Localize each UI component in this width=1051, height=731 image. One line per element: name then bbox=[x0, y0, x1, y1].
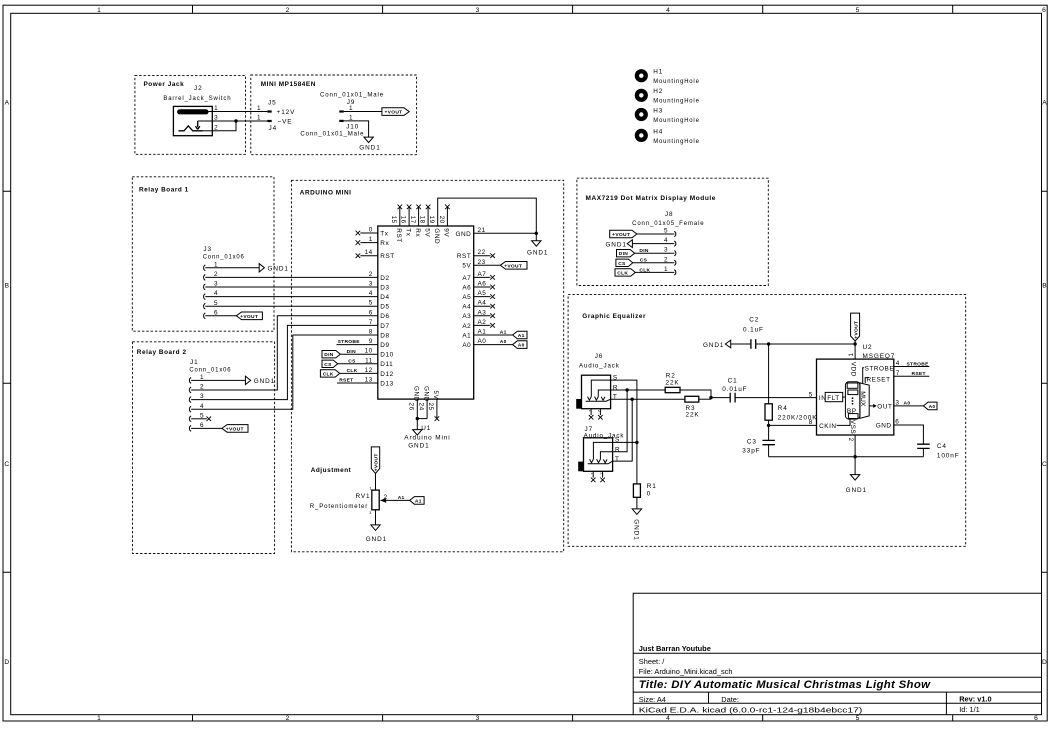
svg-text:D13: D13 bbox=[380, 380, 393, 387]
connector J1 bbox=[189, 359, 231, 373]
U1 top pin names bbox=[395, 228, 450, 244]
svg-text:7: 7 bbox=[369, 319, 373, 326]
svg-text:H4: H4 bbox=[653, 128, 663, 135]
svg-text:1: 1 bbox=[214, 105, 218, 112]
wire J6.S down to J7.S bbox=[611, 380, 637, 442]
wire C1 to U2 pin 5 bbox=[735, 397, 816, 399]
svg-text:2: 2 bbox=[664, 256, 668, 263]
+VOUT flag at J1.6 bbox=[222, 425, 248, 433]
svg-text:1: 1 bbox=[664, 266, 668, 273]
svg-text:A1: A1 bbox=[478, 329, 487, 336]
svg-text:2: 2 bbox=[369, 271, 373, 278]
Relay Board 1 section box bbox=[132, 177, 274, 331]
svg-text:+VOUT: +VOUT bbox=[853, 321, 859, 339]
svg-text:CKIN: CKIN bbox=[819, 423, 836, 430]
svg-text:CS: CS bbox=[640, 258, 648, 264]
svg-text:H3: H3 bbox=[653, 107, 663, 114]
svg-text:Graphic Equalizer: Graphic Equalizer bbox=[582, 313, 646, 320]
net label STROBE on D9 bbox=[337, 339, 378, 345]
svg-text:GND1: GND1 bbox=[366, 536, 387, 543]
svg-text:D: D bbox=[4, 659, 9, 666]
svg-text:1: 1 bbox=[97, 7, 101, 14]
GND1 flag at C2 bbox=[703, 340, 751, 349]
svg-text:20: 20 bbox=[438, 216, 445, 224]
wire junction to C1 bbox=[711, 397, 730, 399]
svg-text:26: 26 bbox=[408, 403, 415, 411]
svg-text:2: 2 bbox=[847, 438, 854, 442]
svg-text:D7: D7 bbox=[380, 323, 389, 330]
svg-text:8: 8 bbox=[809, 419, 813, 426]
svg-text:21: 21 bbox=[478, 227, 486, 234]
U1 pin 22 RST no-connect bbox=[457, 249, 495, 260]
U1 pin 14 RST bbox=[356, 249, 395, 260]
ARDUINO MINI section box bbox=[291, 180, 563, 552]
wire J6.T right and down to J7.T bbox=[611, 399, 685, 461]
svg-text:Tx: Tx bbox=[380, 230, 388, 237]
net label RSET on D13 bbox=[337, 378, 378, 384]
wire +12V J2.1 to J5 bbox=[218, 111, 267, 113]
capacitor C1 bbox=[722, 377, 747, 402]
svg-text:GND1: GND1 bbox=[605, 241, 626, 248]
svg-text:2: 2 bbox=[286, 7, 290, 14]
U2 pin 4 STROBE bbox=[894, 360, 930, 367]
wire J6.R right and down to J7.R bbox=[611, 390, 666, 452]
U1 bottom pin 26 GND bbox=[408, 386, 420, 419]
svg-text:16: 16 bbox=[400, 216, 407, 224]
svg-text:J8: J8 bbox=[665, 211, 674, 218]
ground GND1 below R1 bbox=[632, 497, 641, 540]
svg-text:GND1: GND1 bbox=[254, 378, 275, 385]
svg-text:1: 1 bbox=[848, 352, 855, 356]
svg-text:D5: D5 bbox=[380, 304, 389, 311]
svg-text:GND1: GND1 bbox=[527, 250, 548, 257]
svg-text:1: 1 bbox=[369, 236, 373, 243]
svg-text:18: 18 bbox=[419, 216, 426, 224]
svg-text:GND1: GND1 bbox=[359, 145, 380, 152]
svg-text:A2: A2 bbox=[478, 319, 487, 326]
svg-text:+VOUT: +VOUT bbox=[385, 110, 403, 116]
svg-text:A: A bbox=[5, 100, 10, 107]
svg-text:Audio_Jack: Audio_Jack bbox=[579, 363, 620, 370]
svg-text:4: 4 bbox=[666, 7, 670, 14]
mounting hole H2 bbox=[635, 88, 700, 105]
svg-text:Relay Board 1: Relay Board 1 bbox=[139, 187, 189, 194]
svg-text:C: C bbox=[1042, 461, 1047, 468]
svg-text:RST: RST bbox=[380, 253, 394, 260]
svg-text:D11: D11 bbox=[380, 361, 393, 368]
svg-text:GND1: GND1 bbox=[632, 519, 639, 540]
+VOUT flag vertical at RV1 bbox=[371, 447, 379, 490]
svg-text:STROBE: STROBE bbox=[907, 362, 930, 368]
svg-text:4: 4 bbox=[896, 360, 900, 367]
svg-text:4: 4 bbox=[369, 290, 373, 297]
svg-text:Size: A4: Size: A4 bbox=[639, 695, 666, 704]
svg-text:KiCad E.D.A. kicad (6.0.0-rc1: KiCad E.D.A. kicad (6.0.0-rc1-124-g18b4e… bbox=[639, 706, 863, 715]
svg-text:A0: A0 bbox=[462, 342, 471, 349]
mounting hole H3 bbox=[635, 107, 700, 124]
resistor R2 bbox=[665, 372, 680, 392]
svg-text:RESET: RESET bbox=[867, 376, 891, 383]
svg-text:CS: CS bbox=[324, 362, 332, 368]
J3 pin 5 wire to D5 bbox=[204, 300, 378, 309]
pin 1 of J2 bbox=[209, 105, 219, 112]
svg-text:H2: H2 bbox=[653, 88, 663, 95]
svg-text:H1: H1 bbox=[653, 69, 663, 76]
svg-text:D3: D3 bbox=[380, 284, 389, 291]
svg-text:U2: U2 bbox=[863, 344, 873, 351]
wire pin24 to pin26 bbox=[417, 418, 427, 420]
junction bbox=[234, 119, 237, 122]
wire C2 to VDD bbox=[756, 343, 855, 345]
svg-text:OUT: OUT bbox=[877, 403, 892, 410]
svg-text:5V: 5V bbox=[423, 228, 430, 237]
svg-text:1: 1 bbox=[588, 410, 592, 412]
svg-text:DIN: DIN bbox=[639, 248, 648, 254]
svg-text:J3: J3 bbox=[203, 246, 212, 253]
U2 internals: STROBE/RESET bbox=[863, 366, 894, 384]
svg-text:1: 1 bbox=[257, 105, 261, 112]
+VOUT flag at J9 bbox=[382, 108, 409, 116]
svg-text:C4: C4 bbox=[937, 443, 947, 450]
U2 pin 7 RESET bbox=[894, 370, 930, 377]
svg-text:3: 3 bbox=[895, 400, 899, 407]
U2 pin 2 VSS down bbox=[847, 435, 855, 457]
svg-text:14: 14 bbox=[365, 249, 373, 256]
svg-text:9V: 9V bbox=[443, 228, 450, 237]
svg-text:23: 23 bbox=[478, 259, 486, 266]
svg-text:5: 5 bbox=[664, 228, 668, 235]
svg-text:5: 5 bbox=[369, 300, 373, 307]
svg-text:RST: RST bbox=[395, 228, 402, 242]
svg-text:CLK: CLK bbox=[347, 368, 358, 374]
svg-text:A5: A5 bbox=[478, 290, 487, 297]
svg-text:A1: A1 bbox=[500, 330, 507, 336]
svg-text:A1: A1 bbox=[518, 333, 525, 339]
J8 pin 5 with +VOUT flag bbox=[610, 228, 676, 239]
J3 pin 4 wire to D4 bbox=[204, 290, 378, 299]
svg-text:Just Barran Youtube: Just Barran Youtube bbox=[639, 644, 711, 653]
svg-text:A7: A7 bbox=[462, 275, 471, 282]
svg-text:3: 3 bbox=[369, 511, 371, 515]
svg-text:Date:: Date: bbox=[721, 695, 739, 704]
svg-text:D10: D10 bbox=[380, 352, 393, 359]
+VOUT flag vertical at U2 VDD bbox=[851, 313, 860, 359]
svg-text:1: 1 bbox=[257, 115, 261, 122]
svg-text:T: T bbox=[615, 456, 619, 463]
svg-text:19: 19 bbox=[428, 216, 435, 224]
svg-text:File: Arduino_Mini.kicad_sch: File: Arduino_Mini.kicad_sch bbox=[639, 667, 733, 676]
svg-text:4: 4 bbox=[664, 237, 668, 244]
svg-text:A0: A0 bbox=[904, 401, 911, 407]
svg-text:MountingHole: MountingHole bbox=[653, 98, 700, 105]
svg-text:A6: A6 bbox=[462, 284, 471, 291]
capacitor C3 bbox=[742, 425, 775, 456]
svg-text:A0: A0 bbox=[929, 404, 936, 410]
svg-text:5: 5 bbox=[856, 715, 860, 722]
U2 internals: OUT arrow bbox=[869, 403, 892, 410]
svg-text:A4: A4 bbox=[462, 304, 471, 311]
svg-text:GND1: GND1 bbox=[408, 443, 429, 450]
Relay Board 2 section box bbox=[133, 342, 275, 554]
U2 internals: IN FLT block bbox=[819, 392, 846, 402]
pin 3 of J2 bbox=[198, 114, 219, 121]
ground GND1 below RV1 bbox=[366, 510, 387, 543]
svg-text:D9: D9 bbox=[380, 342, 389, 349]
mounting hole H4 bbox=[635, 128, 700, 145]
svg-text:A3: A3 bbox=[462, 313, 471, 320]
U1 pin 21 GND right bbox=[455, 227, 536, 238]
svg-text:A0: A0 bbox=[500, 339, 507, 345]
svg-text:+VOUT: +VOUT bbox=[240, 314, 258, 320]
IC U1 Arduino Mini body bbox=[378, 226, 474, 399]
U2 internals: CKIN, VSS, GND bbox=[819, 419, 892, 434]
svg-text:R2: R2 bbox=[666, 372, 676, 379]
svg-text:1: 1 bbox=[97, 715, 101, 722]
svg-text:22K: 22K bbox=[666, 380, 680, 387]
svg-text:C2: C2 bbox=[749, 316, 759, 323]
wire RV1 wiper to A1 flag bbox=[387, 499, 410, 501]
svg-text:ARDUINO MINI: ARDUINO MINI bbox=[300, 189, 352, 196]
wire J7.S to R1 bbox=[613, 442, 637, 484]
svg-text:0.01uF: 0.01uF bbox=[722, 386, 747, 393]
svg-text:R4: R4 bbox=[778, 405, 788, 412]
ground GND1 at J10 bbox=[359, 137, 380, 152]
J8 pin 1 with CLK flag bbox=[615, 266, 676, 277]
U1 pin 1 Rx bbox=[356, 236, 390, 247]
svg-text:C3: C3 bbox=[747, 438, 757, 445]
ground GND1 at pin 21 bbox=[527, 233, 548, 256]
connector J3 bbox=[203, 246, 245, 260]
svg-text:J2: J2 bbox=[194, 85, 203, 92]
capacitor C4 bbox=[917, 443, 959, 459]
svg-text:CLK: CLK bbox=[639, 267, 650, 273]
svg-text:Conn_01x01_Male: Conn_01x01_Male bbox=[300, 131, 364, 138]
svg-text:17: 17 bbox=[409, 216, 416, 224]
U2 internals: MUX bbox=[859, 383, 869, 418]
svg-text:C: C bbox=[4, 461, 9, 468]
U1 pins A7..A2 no-connect bbox=[462, 271, 495, 330]
+VOUT flag at J3.6 bbox=[236, 312, 262, 320]
J3 pin 3 wire to D3 bbox=[204, 281, 378, 290]
svg-text:RV1: RV1 bbox=[356, 493, 371, 500]
J8 pin 2 with CS flag bbox=[616, 256, 676, 267]
connector J9 bbox=[320, 91, 384, 112]
svg-text:U1: U1 bbox=[421, 425, 431, 432]
IC U2 MSGEQ7 bbox=[817, 344, 896, 435]
U1 pin A0 with flag bbox=[462, 338, 527, 349]
U1 pin A1 with flag bbox=[462, 329, 527, 340]
svg-text:J1: J1 bbox=[190, 359, 199, 366]
svg-text:A1: A1 bbox=[462, 332, 471, 339]
svg-text:+VOUT: +VOUT bbox=[504, 263, 522, 269]
svg-text:Conn_01x05_Female: Conn_01x05_Female bbox=[632, 220, 704, 227]
svg-text:Sheet: /: Sheet: / bbox=[639, 657, 665, 666]
svg-text:GND1: GND1 bbox=[268, 266, 289, 273]
J1 pin 1 bbox=[189, 374, 245, 383]
svg-text:0: 0 bbox=[369, 227, 373, 234]
svg-text:3: 3 bbox=[476, 7, 480, 14]
svg-text:CLK: CLK bbox=[323, 371, 334, 377]
svg-text:Arduino Mini: Arduino Mini bbox=[404, 435, 450, 442]
svg-text:DIN: DIN bbox=[619, 251, 628, 257]
svg-text:Conn_01x06: Conn_01x06 bbox=[189, 366, 231, 373]
svg-text:12: 12 bbox=[365, 367, 373, 374]
svg-text:MAX7219 Dot Matrix Display Mod: MAX7219 Dot Matrix Display Module bbox=[586, 195, 716, 202]
svg-text:13: 13 bbox=[365, 377, 373, 384]
GND1 flag at J1.1 bbox=[245, 376, 275, 385]
Power Jack section box bbox=[135, 75, 246, 154]
svg-text:Tx: Tx bbox=[404, 228, 411, 236]
svg-text:6: 6 bbox=[1034, 715, 1038, 722]
svg-text:VSS: VSS bbox=[849, 420, 856, 434]
audio jack J6 bbox=[576, 353, 620, 420]
svg-text:22K: 22K bbox=[686, 412, 700, 419]
svg-text:24: 24 bbox=[417, 403, 424, 411]
svg-text:J5: J5 bbox=[268, 100, 277, 107]
J1 pin 3 wire to D7 bbox=[189, 325, 377, 402]
svg-text:B: B bbox=[1042, 283, 1047, 290]
connector J2 bbox=[163, 85, 231, 136]
svg-text:GND: GND bbox=[876, 423, 892, 430]
svg-text:GND1: GND1 bbox=[703, 342, 724, 349]
svg-text:MINI MP1584EN: MINI MP1584EN bbox=[261, 81, 316, 88]
svg-text:A1: A1 bbox=[415, 498, 422, 504]
MAX7219 section box bbox=[577, 178, 768, 285]
wire J2.2 up to J2.3 net bbox=[218, 121, 236, 131]
svg-text:R: R bbox=[615, 447, 620, 454]
svg-text:STROBE: STROBE bbox=[865, 366, 895, 373]
J3 pin 1 bbox=[204, 261, 260, 270]
svg-text:DIN: DIN bbox=[324, 352, 333, 358]
svg-text:MountingHole: MountingHole bbox=[653, 78, 700, 85]
wire -VE J2.3 to J4 bbox=[218, 120, 267, 122]
svg-text:VDD: VDD bbox=[850, 362, 857, 377]
svg-text:A0: A0 bbox=[478, 338, 487, 345]
A1 flag at RV1 bbox=[410, 497, 424, 505]
wire pin19 GND loop to pin 21 bbox=[438, 198, 537, 233]
resistor R3 bbox=[685, 396, 700, 418]
svg-text:J4: J4 bbox=[269, 125, 278, 132]
svg-text:R1: R1 bbox=[647, 483, 657, 490]
svg-text:GND: GND bbox=[413, 386, 420, 402]
svg-text:B: B bbox=[5, 283, 10, 290]
svg-text:25: 25 bbox=[427, 403, 434, 411]
svg-text:RSET: RSET bbox=[339, 378, 353, 384]
svg-text:33pF: 33pF bbox=[742, 448, 760, 455]
svg-text:CS: CS bbox=[618, 261, 626, 267]
svg-text:2: 2 bbox=[286, 715, 290, 722]
connector J4 bbox=[257, 115, 293, 132]
svg-text:1: 1 bbox=[590, 472, 594, 474]
svg-text:1: 1 bbox=[369, 486, 371, 490]
svg-text:10: 10 bbox=[365, 348, 373, 355]
wire R2 to junction bbox=[680, 390, 711, 399]
ground GND1 at U1 bbox=[408, 419, 429, 450]
svg-text:2: 2 bbox=[597, 410, 601, 412]
svg-text:Rev: v1.0: Rev: v1.0 bbox=[959, 694, 991, 703]
svg-text:+VOUT: +VOUT bbox=[374, 453, 380, 471]
svg-text:−VE: −VE bbox=[278, 118, 293, 125]
J3 pin 2 wire to D2 bbox=[204, 271, 378, 280]
resistor R4 bbox=[765, 404, 817, 422]
U1 top pins 15-18,20 no-connect bbox=[398, 205, 450, 226]
svg-text:GND: GND bbox=[422, 386, 429, 402]
svg-text:R_Potentiometer: R_Potentiometer bbox=[310, 503, 368, 510]
svg-text:A4: A4 bbox=[478, 300, 487, 307]
J1 pin 2 wire to D6 bbox=[189, 316, 377, 393]
U1 pins D2..D13 numbers and names bbox=[365, 271, 394, 388]
audio jack J7 bbox=[578, 426, 624, 482]
svg-text:3: 3 bbox=[664, 247, 668, 254]
svg-text:A5: A5 bbox=[462, 294, 471, 301]
svg-text:0: 0 bbox=[647, 491, 651, 498]
global label CLK on D12 bbox=[320, 368, 377, 377]
svg-text:11: 11 bbox=[365, 357, 373, 364]
U2 pin 3 OUT with A0 flag bbox=[894, 400, 937, 410]
svg-text:Conn_01x01_Male: Conn_01x01_Male bbox=[320, 91, 384, 98]
junction at GND loop bbox=[535, 232, 538, 235]
U1 bottom pin 25 5V no-connect bbox=[427, 391, 439, 421]
svg-text:8: 8 bbox=[369, 329, 373, 336]
svg-text:D8: D8 bbox=[380, 332, 389, 339]
svg-text:RSET: RSET bbox=[912, 371, 926, 377]
capacitor C2 bbox=[743, 316, 764, 349]
svg-text:5: 5 bbox=[856, 7, 860, 14]
U1 pin 23 5V with +VOUT flag bbox=[462, 259, 527, 270]
svg-text:Power Jack: Power Jack bbox=[144, 81, 185, 88]
svg-text:D4: D4 bbox=[380, 294, 389, 301]
svg-text:FLT: FLT bbox=[827, 395, 840, 402]
svg-text:C1: C1 bbox=[728, 377, 738, 384]
svg-text:+VOUT: +VOUT bbox=[612, 232, 630, 238]
svg-text:3: 3 bbox=[476, 715, 480, 722]
svg-text:4: 4 bbox=[666, 715, 670, 722]
svg-text:3: 3 bbox=[369, 281, 373, 288]
U1 bottom pin 24 GND bbox=[417, 386, 429, 419]
svg-text:6: 6 bbox=[369, 309, 373, 316]
svg-text:+VOUT: +VOUT bbox=[226, 426, 244, 432]
svg-text:15: 15 bbox=[390, 216, 397, 224]
pin 2 of J2 bbox=[203, 124, 219, 131]
svg-text:A: A bbox=[1042, 100, 1047, 107]
svg-text:22: 22 bbox=[478, 249, 486, 256]
wire R3 to junction bbox=[699, 398, 711, 400]
wire VDD branch down to R4 bbox=[768, 344, 770, 404]
bottom ground bus bbox=[769, 456, 924, 458]
svg-text:9: 9 bbox=[369, 338, 373, 345]
svg-text:5V: 5V bbox=[432, 391, 439, 400]
svg-text:Adjustment: Adjustment bbox=[311, 467, 352, 474]
svg-text:6: 6 bbox=[895, 419, 899, 426]
potentiometer RV1 bbox=[310, 486, 388, 514]
svg-text:A0: A0 bbox=[518, 343, 525, 349]
J3 pin 6 bbox=[204, 309, 237, 318]
svg-text:Rx: Rx bbox=[414, 228, 421, 237]
global label CS on D11 bbox=[322, 358, 378, 367]
U2 pin 6 GND to C4 bbox=[894, 419, 924, 445]
svg-text:A6: A6 bbox=[478, 281, 487, 288]
svg-text:GND: GND bbox=[455, 231, 471, 238]
J1 pin 6 bbox=[189, 422, 222, 431]
svg-text:Relay Board 2: Relay Board 2 bbox=[137, 349, 187, 356]
svg-text:7: 7 bbox=[896, 370, 900, 377]
svg-text:2: 2 bbox=[384, 494, 388, 501]
ground GND1 at U2 bbox=[846, 457, 867, 494]
connector J8 bbox=[632, 211, 704, 227]
svg-text:A2: A2 bbox=[462, 323, 471, 330]
svg-text:D: D bbox=[1042, 659, 1047, 666]
svg-text:+12V: +12V bbox=[277, 109, 296, 116]
